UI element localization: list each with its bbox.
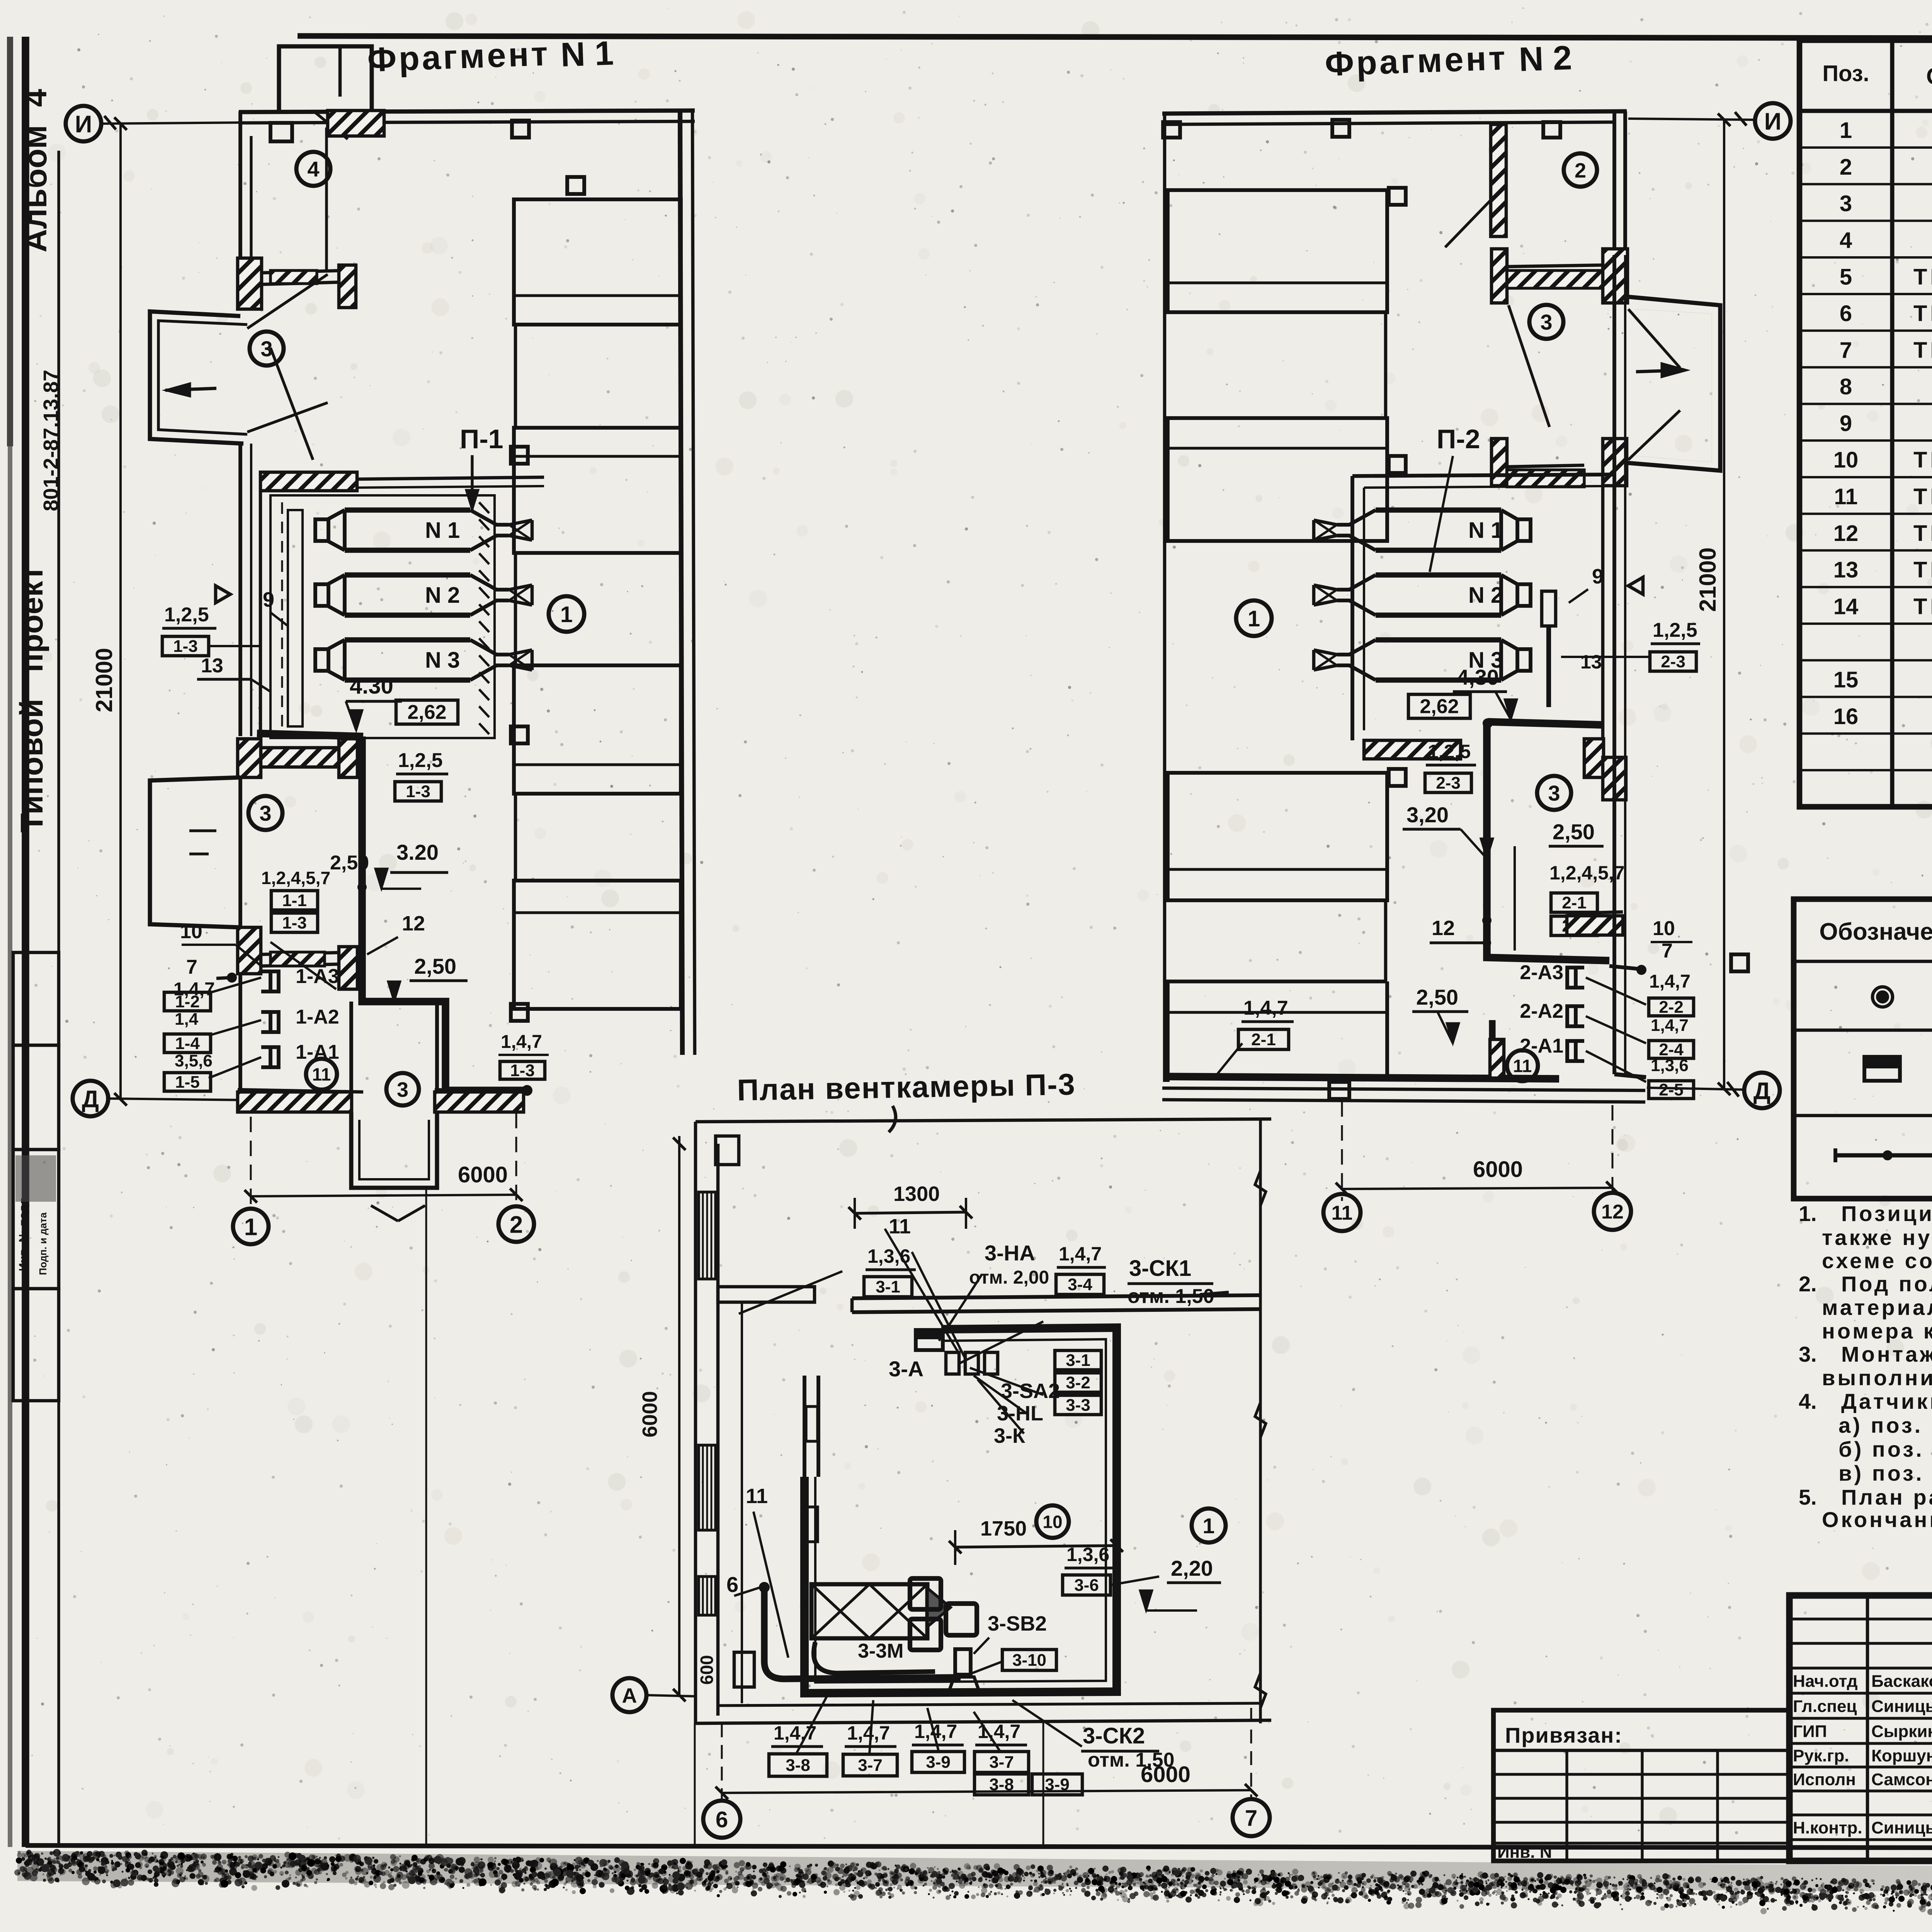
stall row band 3 (fragment 2) [1168, 773, 1387, 900]
wall: fragment 1 right outer wall [680, 111, 682, 1055]
svg-text:1-А2: 1-А2 [296, 1006, 339, 1028]
svg-text:3-СК1: 3-СК1 [1129, 1256, 1191, 1281]
svg-text:11: 11 [746, 1485, 768, 1508]
svg-text:Гл.спец: Гл.спец [1793, 1697, 1857, 1716]
svg-text:N 3: N 3 [425, 648, 460, 673]
svg-text:ТМ8-94-77: ТМ8-94-77 [1913, 447, 1932, 473]
П-3 vertical duct pair [803, 1376, 806, 1477]
funnel lines of vestibule (fragment 1) [247, 274, 328, 328]
П-3 left wall striped segments [699, 1192, 716, 1279]
svg-text:6000: 6000 [1473, 1157, 1523, 1182]
svg-text:3-3: 3-3 [1066, 1396, 1090, 1415]
svg-text:1-3: 1-3 [510, 1061, 535, 1080]
svg-text:2: 2 [1575, 159, 1586, 182]
svg-text:1,2,5: 1,2,5 [398, 749, 443, 772]
svg-text:Обозначение: Обозначение [1819, 918, 1932, 945]
bottom axis circles 1 and 2 with dimension 6000 (fragment 1) [233, 1209, 269, 1244]
svg-text:Баскаков: Баскаков [1871, 1672, 1932, 1691]
svg-text:ТМ8-94-77: ТМ8-94-77 [1913, 484, 1932, 509]
svg-text:1-5: 1-5 [175, 1073, 200, 1092]
svg-text:3: 3 [1548, 781, 1560, 805]
circle room tag 11 (fragment 2) [1507, 1050, 1538, 1081]
svg-text:а) поз. 7 — на отм.: а) поз. 7 — на отм. 2.20 [1822, 1413, 1932, 1437]
hatched band below П-2 (fragment 2) [1364, 740, 1461, 759]
svg-text:3-6: 3-6 [1074, 1576, 1099, 1595]
page frame: left outer border [22, 37, 29, 1847]
title block outer frame [1789, 1595, 1932, 1861]
П-3 bottom dimension 6000 and axis circles 6 7 [722, 1790, 1251, 1793]
vent room П-2 bottom bold wall [1488, 722, 1603, 725]
svg-text:6: 6 [1840, 301, 1852, 326]
fan N2 (fragment 2) [1314, 575, 1531, 615]
П-3 right boundary line with break marks [1259, 1119, 1262, 1723]
svg-text:Самсонова: Самсонова [1871, 1770, 1932, 1789]
svg-text:12: 12 [402, 912, 425, 935]
column tick on top wall (fragment 1) [270, 123, 292, 141]
svg-text:2,50: 2,50 [1553, 820, 1595, 844]
circle room tag 11 (fragment 1) [306, 1059, 337, 1090]
svg-text:3-SA2: 3-SA2 [1001, 1379, 1060, 1403]
svg-text:1,4,7: 1,4,7 [1651, 1016, 1689, 1035]
svg-text:Рук.гр.: Рук.гр. [1793, 1747, 1849, 1765]
svg-text:600: 600 [697, 1655, 717, 1685]
svg-text:ТМ4-52-73: ТМ4-52-73 [1913, 594, 1932, 619]
air arrow right (fragment 2) [1636, 370, 1685, 372]
svg-text:1,2,4,5,7: 1,2,4,5,7 [261, 868, 330, 888]
svg-text:4,30: 4,30 [1457, 665, 1499, 689]
axis line Д (fragment 1) [108, 1099, 247, 1100]
axis marker И (fragment 1) [66, 106, 101, 141]
svg-text:2,50: 2,50 [414, 954, 456, 978]
room tag circle 1 (fragment 2, cow hall) [1236, 600, 1272, 636]
svg-text:5.: 5. [1799, 1485, 1817, 1509]
svg-text:Синицын: Синицын [1871, 1697, 1932, 1716]
stall row band 3 (fragment 1) [514, 665, 681, 794]
margin stamp boxes [13, 952, 59, 1045]
svg-text:1: 1 [1202, 1514, 1214, 1538]
svg-text:Фрагмент: Фрагмент [1324, 39, 1508, 83]
wall: left wall mid segment (fragment 1) [238, 444, 242, 736]
svg-text:П-2: П-2 [1437, 424, 1480, 454]
wall: hatched T-wall above П-2 (fragment 2) [1492, 439, 1507, 486]
svg-text:Фрагмент: Фрагмент [367, 34, 551, 79]
svg-text:И: И [75, 111, 92, 138]
wall: hatched band below П-1 (fragment 1) [238, 739, 261, 777]
svg-text:11: 11 [889, 1215, 911, 1238]
triangle sensor mark (fragment 1) [216, 586, 230, 603]
circle room tag 3 bottom (fragment 1) [386, 1073, 419, 1105]
svg-text:1-4: 1-4 [175, 1034, 200, 1053]
svg-text:Сыркин: Сыркин [1871, 1722, 1932, 1741]
svg-text:2: 2 [1840, 155, 1852, 180]
stall row band 4 (fragment 1) [514, 881, 681, 1009]
svg-text:2.: 2. [1799, 1272, 1817, 1296]
wall: fragment 1 upper-left outer wall (double vertical) [238, 111, 242, 258]
svg-text:4: 4 [1840, 228, 1852, 253]
column ticks on top wall (fragment 2) [1332, 120, 1349, 137]
fan N1 (fragment 2) [1314, 510, 1531, 550]
svg-text:2,62: 2,62 [407, 701, 446, 724]
svg-text:N 2: N 2 [425, 583, 460, 608]
svg-text:П-1: П-1 [460, 424, 503, 454]
wall: inner horizontal wall lower (fragment 1) [262, 952, 357, 954]
stall row band 2 (fragment 1) [514, 428, 681, 553]
svg-text:13: 13 [1833, 558, 1859, 583]
П-3 device 3-SB2 [955, 1649, 971, 1675]
svg-text:Типовой проект: Типовой проект [14, 565, 49, 833]
svg-text:1,3,6: 1,3,6 [1651, 1056, 1689, 1075]
svg-text:выполнить согласно СНиП 3.: выполнить согласно СНиП 3. 05.07- 85. [1822, 1366, 1932, 1390]
wall: fragment 1 top chimney [279, 46, 372, 111]
svg-text:21000: 21000 [91, 648, 117, 713]
stacked cable boxes left (fragment 1) [164, 992, 211, 1011]
svg-text:1-3: 1-3 [282, 913, 307, 932]
title block signoff row lines [1789, 1617, 1932, 1620]
cable bold vertical (fragment 1) [362, 736, 527, 1090]
svg-text:4.30: 4.30 [350, 673, 393, 699]
П-3 unit squares [910, 1578, 941, 1609]
svg-text:Коршунов: Коршунов [1871, 1747, 1932, 1765]
spec table rows text [1840, 118, 1932, 143]
svg-text:5: 5 [1840, 264, 1852, 289]
П-3 small box top-left [716, 1136, 739, 1165]
wall: hatched vertical strip bottom (fragment 2) [1490, 1039, 1504, 1078]
П-3 dimension 1750 with circle 10 [955, 1546, 1117, 1547]
sensors 2-А3 2-А2 2-А1 (fragment 2) [1567, 968, 1584, 988]
spec table header bottom line [1799, 109, 1932, 113]
axis line Д (fragment 2) [1647, 1088, 1745, 1090]
svg-text:2,62: 2,62 [1420, 696, 1459, 718]
П-3 left wall inner vertical line [741, 1302, 743, 1703]
svg-text:2,50: 2,50 [330, 852, 369, 874]
П-3 bottom wall lines [696, 1720, 1271, 1723]
svg-text:Исполн: Исполн [1793, 1770, 1856, 1789]
wall: inner horizontal wall with hatch (upper doorway) [262, 270, 345, 273]
svg-text:также нумерация и типы: также нумерация и типы кабелей соответст… [1822, 1225, 1932, 1250]
svg-text:12: 12 [1833, 521, 1859, 546]
wall: hatched vertical pier below top wall (fragment 2) [1491, 124, 1506, 236]
svg-text:6: 6 [726, 1572, 738, 1597]
axis line И (fragment 1) [101, 122, 247, 124]
svg-text:7: 7 [186, 956, 197, 978]
box 2,62 (fragment 2) [1408, 694, 1470, 718]
legend symbol: embedded sensor (dot) [1876, 990, 1889, 1003]
svg-text:3-SВ2: 3-SВ2 [988, 1612, 1047, 1635]
bottom vestibule (fragment 1) [351, 1112, 437, 1188]
svg-text:1,3,6: 1,3,6 [867, 1245, 910, 1267]
svg-text:1-1: 1-1 [282, 891, 307, 910]
wall: fragment 2 top outer wall (double) [1162, 111, 1627, 114]
bottom wall with hatch (fragment 1) [238, 1090, 363, 1092]
svg-text:3-7: 3-7 [989, 1753, 1014, 1772]
bottom speckle band [0, 0, 0, 0]
stall feeder squares (fragment 1) [567, 177, 584, 194]
П-3 dimension 1300 [855, 1212, 966, 1213]
sensor device 9 (fragment 2) [1542, 591, 1556, 626]
svg-text:13: 13 [201, 655, 223, 677]
svg-text:А: А [622, 1684, 637, 1707]
svg-text:Д: Д [1753, 1078, 1770, 1104]
svg-text:6000: 6000 [1141, 1762, 1190, 1787]
funnel door lines (fragment 2) [1509, 305, 1549, 427]
П-3 connection line down from fragment1 (vertical thin) [425, 1189, 427, 1845]
svg-text:2,50: 2,50 [1416, 985, 1458, 1009]
legend symbol: wiring to other level (line with dot) [1835, 1153, 1932, 1158]
stall strip connectors (fragment 2) [1384, 312, 1388, 418]
П-3 upper duct channel double line [852, 1295, 1260, 1298]
svg-text:Датчики температуры устано: Датчики температуры установить: [1841, 1389, 1932, 1413]
svg-text:2-А1: 2-А1 [1520, 1035, 1563, 1057]
svg-text:14: 14 [1833, 594, 1859, 619]
wall: hatched block left upper [238, 258, 262, 309]
svg-text:3: 3 [259, 801, 271, 825]
spec table column lines [1890, 40, 1895, 807]
svg-text:6: 6 [716, 1807, 728, 1832]
cable bold vertical (fragment 2) [1487, 723, 1609, 961]
vent room П-2 walls (fragment 2) [1350, 476, 1354, 740]
svg-text:11: 11 [1513, 1056, 1532, 1076]
fan N1 (fragment 1) [315, 510, 532, 550]
svg-text:б) поз. 8 — на отм.: б) поз. 8 — на отм. 1.70 [1822, 1437, 1932, 1461]
svg-text:Нач.отд: Нач.отд [1793, 1672, 1858, 1691]
wall: hatched pier on top wall [328, 111, 384, 136]
svg-text:7: 7 [1662, 940, 1673, 962]
П-3 outer top wall [696, 1119, 1271, 1122]
wall: fragment 2 right outer wall upper (double) [1612, 111, 1616, 255]
svg-text:схеме соединений внешн: схеме соединений внешних проводок. [1822, 1248, 1932, 1273]
tick hatching on П-1 room right edge [479, 502, 489, 734]
axis marker Д (fragment 1) [73, 1081, 108, 1116]
svg-text:Синицын: Синицын [1871, 1818, 1932, 1837]
wall: hatched T-wall below room 2 (fragment 2) [1492, 249, 1507, 303]
title block signoff columns [1866, 1595, 1869, 1861]
svg-text:1-2: 1-2 [175, 992, 200, 1011]
stall strip connectors (fragment 1) [514, 325, 517, 428]
svg-text:3-К: 3-К [994, 1424, 1026, 1447]
stall row band 2 (fragment 2) [1168, 418, 1387, 541]
svg-text:ГИП: ГИП [1793, 1722, 1827, 1741]
vent room П-1 walls (fragment 1) [260, 472, 357, 491]
П-3 left protruding duct [718, 1287, 815, 1302]
wall: fragment 1 top outer wall (double) [239, 111, 695, 112]
bottom wall double lines (fragment 2) [1162, 1088, 1645, 1090]
svg-text:4.: 4. [1799, 1389, 1817, 1413]
svg-text:3.20: 3.20 [396, 840, 439, 864]
fan N3 (fragment 1) [315, 640, 532, 680]
svg-text:2-1: 2-1 [1251, 1030, 1276, 1049]
svg-text:3-9: 3-9 [926, 1753, 951, 1772]
sensors 1-А3 1-А2 1-А1 (fragment 1) [261, 971, 279, 992]
svg-text:1: 1 [1248, 606, 1260, 631]
wall: hatched block right of doorway [339, 265, 356, 308]
svg-text:1,4: 1,4 [175, 1010, 199, 1029]
svg-text:2: 2 [510, 1211, 523, 1238]
svg-text:Инв. N: Инв. N [1497, 1843, 1552, 1862]
svg-text:3-7: 3-7 [858, 1756, 883, 1775]
svg-text:1,4,7: 1,4,7 [1649, 971, 1690, 992]
svg-text:ТМ4-219-76: ТМ4-219-76 [1913, 338, 1932, 363]
svg-text:N 1: N 1 [425, 518, 460, 543]
svg-text:Поз.: Поз. [1822, 61, 1869, 86]
П-3 left wall (double with pattern) [694, 1122, 697, 1723]
svg-text:11: 11 [1332, 1202, 1353, 1225]
svg-text:3.: 3. [1799, 1342, 1817, 1366]
svg-text:3-СК2: 3-СК2 [1083, 1723, 1145, 1748]
vestibule top-left (fragment 1) [150, 311, 243, 444]
axis marker Д (fragment 2) [1744, 1073, 1780, 1108]
wall: right wall mid segment (fragment 2) [1612, 255, 1616, 746]
axis line И (fragment 2) [1628, 119, 1755, 120]
svg-text:3-1: 3-1 [876, 1277, 900, 1296]
air arrow left (fragment 1) [165, 388, 216, 390]
svg-text:N 1: N 1 [1468, 518, 1503, 543]
П-3 axis А circle [612, 1678, 646, 1712]
axis marker И (fragment 2) [1755, 103, 1791, 139]
П-3 device 3-А (top) [916, 1330, 943, 1350]
svg-text:4: 4 [307, 157, 319, 181]
svg-text:12: 12 [1432, 917, 1455, 940]
svg-text:1,3,6: 1,3,6 [1066, 1544, 1109, 1565]
svg-text:15: 15 [1833, 667, 1859, 692]
svg-text:1.: 1. [1799, 1201, 1817, 1226]
П-3 leader lines from top devices [885, 1229, 958, 1352]
partition line below top wall (fragment 1) [325, 128, 328, 270]
svg-text:Д: Д [82, 1086, 99, 1112]
spec table outer frame [1799, 40, 1932, 807]
svg-text:3-НА: 3-НА [985, 1241, 1035, 1265]
svg-text:7: 7 [1245, 1806, 1257, 1831]
vent room П-1 bottom bold wall [257, 733, 363, 736]
legend symbol: out-of-panel device (rect) [1864, 1057, 1900, 1081]
room tag circle 1 (fragment 1, cow hall) [549, 596, 584, 632]
svg-text:10: 10 [1043, 1512, 1062, 1532]
svg-text:3: 3 [397, 1078, 408, 1101]
svg-text:1-3: 1-3 [406, 782, 430, 801]
circle room tag 3 upper (fragment 1) [250, 332, 284, 366]
svg-text:3,20: 3,20 [1406, 803, 1449, 827]
svg-text:9: 9 [263, 588, 274, 611]
svg-text:ТМ8-94-77: ТМ8-94-77 [1913, 558, 1932, 583]
svg-text:6000: 6000 [458, 1162, 508, 1187]
svg-text:Позиции монтируемых приборов: Позиции монтируемых приборов и аппаратур… [1841, 1201, 1932, 1226]
right lower vestibule walls (fragment 2) [1612, 746, 1616, 1074]
svg-text:Подп. и дата: Подп. и дата [37, 1212, 49, 1275]
svg-text:Привязан:: Привязан: [1505, 1723, 1622, 1747]
П-3 circle 1 (right room) [1192, 1509, 1226, 1543]
svg-text:ТМ4-219-76: ТМ4-219-76 [1913, 264, 1932, 289]
svg-text:отм. 2,00: отм. 2,00 [969, 1267, 1049, 1288]
circle room tag 3 (fragment 2 mid) [1537, 776, 1571, 810]
svg-text:1,4,7: 1,4,7 [501, 1032, 542, 1052]
svg-text:План расположения выполнен: План расположения выполнен на двух листа… [1841, 1485, 1932, 1509]
svg-text:1: 1 [244, 1214, 257, 1240]
title block signoff texts [1793, 1672, 1932, 1691]
svg-text:801-2-87.13.87: 801-2-87.13.87 [39, 370, 63, 511]
svg-text:2-А2: 2-А2 [1520, 1000, 1563, 1022]
notes text block [1799, 1201, 1932, 1226]
svg-text:Окончание см. лист 2.: Окончание см. лист 2. [1822, 1507, 1932, 1532]
П-3 devices 3-SA2 3-НL 3-К row [946, 1352, 959, 1374]
circle room tag 4 (fragment 1) [296, 152, 330, 186]
room 3 big rectangle (fragment 1 mid-left) [150, 777, 240, 927]
svg-text:ТМ4-219-76: ТМ4-219-76 [1913, 301, 1932, 326]
svg-text:11: 11 [312, 1065, 331, 1085]
svg-text:Альбом 4: Альбом 4 [17, 89, 53, 253]
svg-text:3-10: 3-10 [1012, 1651, 1046, 1670]
П-3 stacked boxes 3-1 3-2 3-3 [1055, 1350, 1101, 1370]
svg-text:3: 3 [260, 337, 272, 361]
circle room tag 2 (fragment 2) [1564, 153, 1597, 187]
svg-text:16: 16 [1833, 704, 1859, 729]
wall: left wall lower segment + hatch (fragment 1) [238, 927, 242, 1090]
svg-text:3,5,6: 3,5,6 [175, 1051, 213, 1070]
svg-text:1,2,5: 1,2,5 [164, 604, 209, 626]
svg-text:Н.контр.: Н.контр. [1793, 1818, 1862, 1837]
svg-text:7: 7 [1840, 338, 1852, 363]
stall row band 4 (fragment 2) [1168, 981, 1387, 1082]
page frame: top border [298, 36, 1932, 39]
fan N3 (fragment 2) [1314, 640, 1531, 680]
svg-text:2-5: 2-5 [1659, 1080, 1684, 1099]
svg-text:2,20: 2,20 [1171, 1556, 1213, 1580]
svg-text:План венткамеры П-3: План венткамеры П-3 [737, 1067, 1076, 1107]
wall: fragment 2 left boundary line [1163, 112, 1167, 1082]
svg-text:10: 10 [180, 920, 202, 943]
stall feeder squares (fragment 2) [1389, 188, 1406, 205]
svg-text:отм. 1,50: отм. 1,50 [1128, 1285, 1214, 1308]
svg-text:1-3: 1-3 [173, 637, 198, 656]
svg-text:1300: 1300 [893, 1182, 940, 1206]
bottom axis circles 11 and 12 with dimension 6000 (fragment 2) [1323, 1194, 1361, 1231]
svg-text:6000: 6000 [638, 1391, 662, 1437]
vent room П-1 inner dashed box [270, 495, 495, 738]
svg-text:1: 1 [1840, 118, 1852, 143]
svg-text:Инв. № подл.: Инв. № подл. [17, 1194, 30, 1271]
svg-text:1,4,7: 1,4,7 [1059, 1243, 1102, 1265]
svg-text:3-НL: 3-НL [997, 1402, 1043, 1425]
svg-text:Обозначение: Обозначение [1926, 63, 1932, 89]
svg-text:9: 9 [1840, 411, 1852, 436]
stall row band 1 (fragment 2) [1168, 190, 1387, 312]
circle room tag 3 mid (fragment 1) [248, 796, 282, 830]
svg-text:1,2,5: 1,2,5 [1428, 741, 1471, 762]
svg-text:N 2: N 2 [1518, 38, 1572, 78]
spec table row lines [1799, 146, 1932, 149]
svg-text:Монтаж приборов и средств: Монтаж приборов и средств автоматизации [1841, 1342, 1932, 1366]
svg-text:Под полкой линии- выноски: Под полкой линии- выноски позиции монтаж… [1841, 1272, 1932, 1296]
П-3 air handling unit [811, 1584, 927, 1638]
П-3 inner room thin inner line [815, 1339, 1106, 1682]
svg-text:2-3: 2-3 [1661, 652, 1685, 671]
wall: hatched band mid-right (fragment 2) [1567, 916, 1623, 935]
svg-text:1,4,7: 1,4,7 [847, 1722, 890, 1744]
page frame: left inner border [57, 151, 60, 1847]
svg-text:1,4,7: 1,4,7 [1243, 997, 1288, 1019]
svg-text:1: 1 [560, 602, 573, 627]
apпендix table Привязан [1493, 1710, 1789, 1861]
triangle mark (fragment 2) [1628, 577, 1643, 594]
svg-text:8: 8 [1840, 374, 1852, 400]
svg-text:номера кабелей и труб: номера кабелей и труб. [1822, 1319, 1932, 1343]
svg-text:10: 10 [1833, 447, 1859, 473]
svg-text:3-8: 3-8 [786, 1756, 810, 1775]
svg-text:1750: 1750 [980, 1517, 1027, 1540]
page frame: bottom border [26, 1845, 1932, 1849]
vent room П-1 left wall details [259, 491, 262, 738]
bottom wall bold cable (fragment 2) [1163, 1077, 1559, 1079]
П-3 leader lines to bottom labels [796, 1696, 827, 1754]
leader lines to sensors (fragment 1) [209, 978, 261, 993]
